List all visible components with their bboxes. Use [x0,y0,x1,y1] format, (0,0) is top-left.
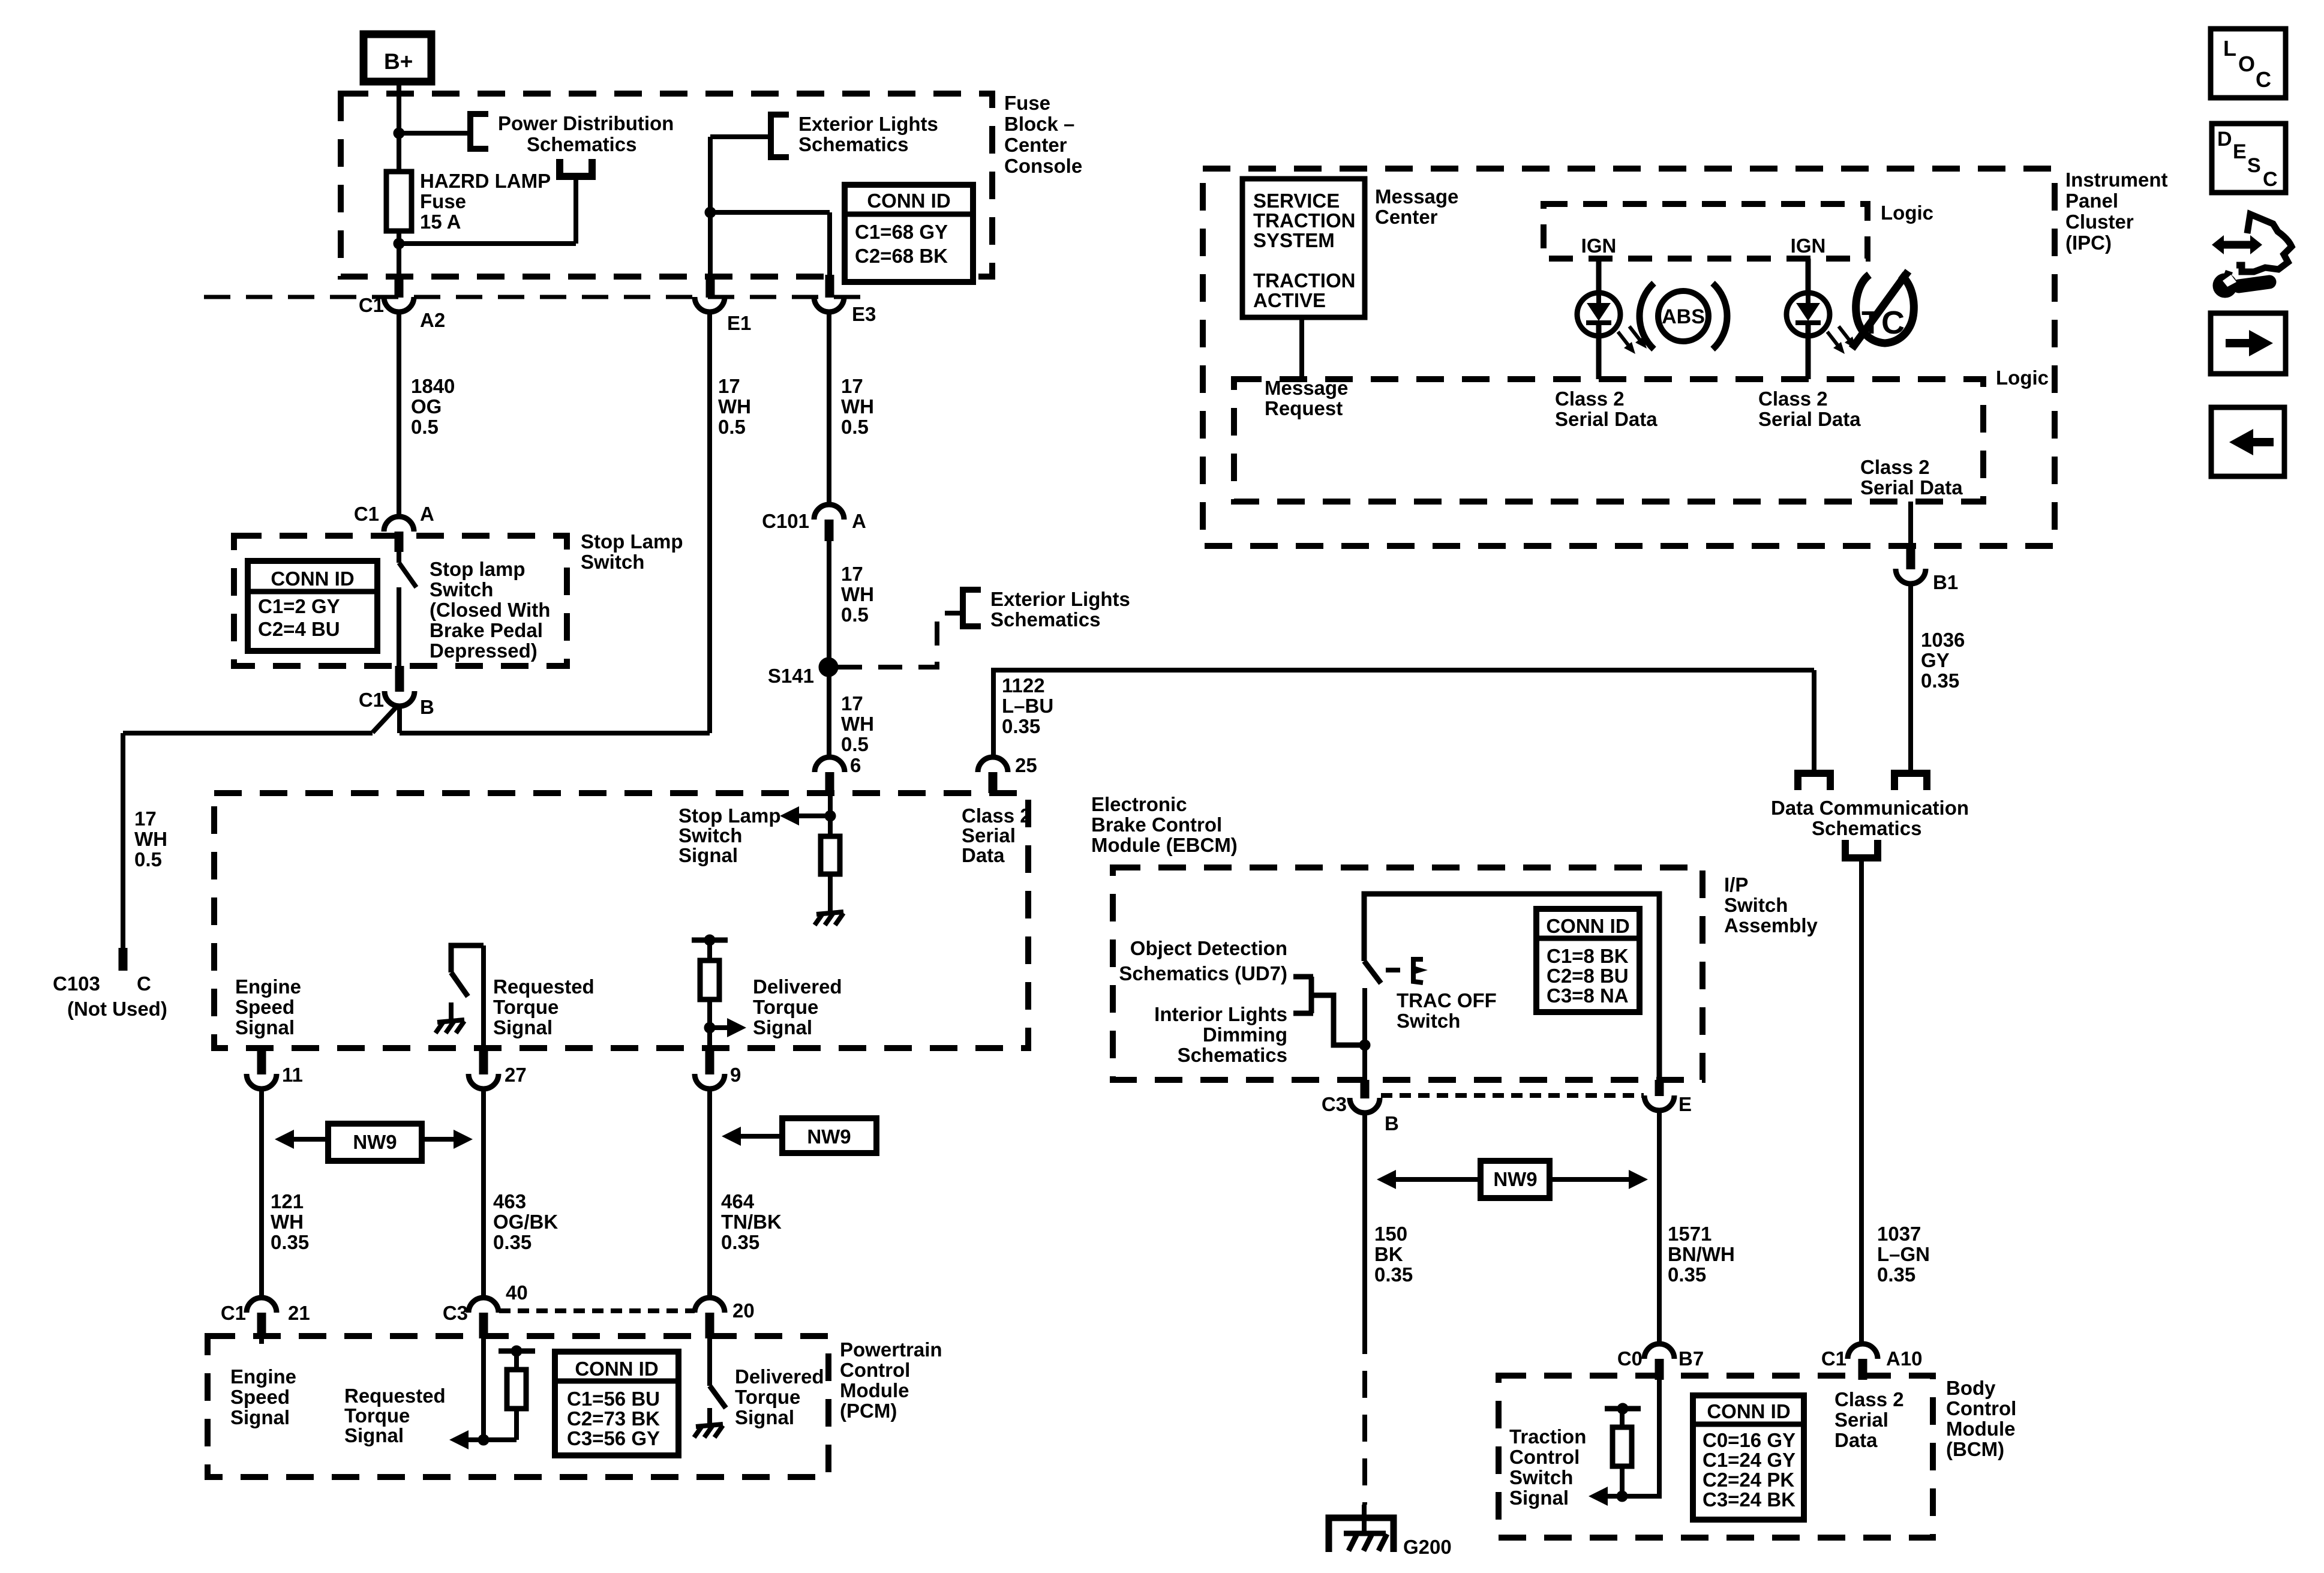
LED arrows (left) [1618,332,1631,348]
svg-text:15 A: 15 A [420,211,461,233]
wire E1 riser (17 WH 0.5) [707,312,712,733]
svg-text:WH: WH [134,828,167,850]
svg-text:O: O [2238,52,2255,76]
CONN ID table (I/P switch) [1536,909,1640,1012]
svg-text:C2=68 BK: C2=68 BK [855,245,948,267]
svg-text:Schematics: Schematics [798,133,908,155]
svg-text:Serial Data: Serial Data [1860,476,1963,499]
svg-text:Switch: Switch [430,578,493,601]
svg-text:0.35: 0.35 [1877,1263,1915,1286]
wire pin6 to stop lamp node [828,793,833,836]
svg-text:A: A [852,510,866,532]
svg-text:150: 150 [1374,1223,1407,1245]
svg-text:CONN ID: CONN ID [1707,1400,1790,1422]
off-page bracket Power Distribution [470,114,488,149]
svg-text:Switch: Switch [1724,894,1788,916]
fuse block dashed box [341,94,992,277]
svg-text:C1=2 GY: C1=2 GY [258,595,340,617]
svg-text:C2=73 BK: C2=73 BK [567,1407,660,1430]
svg-text:Signal: Signal [344,1424,404,1446]
harness NW9 (engine speed / requested torque) [275,1130,294,1149]
ground (PCM delivered torque) [707,1408,712,1424]
svg-text:C1: C1 [1821,1347,1846,1370]
harness NW9 (trac off) [1377,1170,1396,1189]
svg-text:Switch: Switch [678,824,742,846]
svg-text:Interior Lights: Interior Lights [1154,1003,1287,1025]
svg-text:17: 17 [134,807,157,830]
CONN ID table (stop lamp switch) [248,561,377,651]
svg-text:B1: B1 [1933,571,1958,593]
svg-text:0.35: 0.35 [271,1231,309,1253]
svg-text:TC: TC [1861,305,1905,341]
svg-text:1037: 1037 [1877,1223,1921,1245]
svg-text:Dimming: Dimming [1203,1023,1287,1046]
wire 1840 OG 0.5 [397,312,401,517]
svg-text:E3: E3 [852,303,876,325]
delivered torque switch (PCM) [707,1336,712,1386]
switch blade to C103 branch [373,706,398,733]
svg-text:Brake Pedal: Brake Pedal [430,619,543,641]
node E1/E3 branch junction [705,207,716,218]
wire branch to E3 [710,210,830,215]
svg-text:Control: Control [840,1359,910,1381]
svg-text:G200: G200 [1403,1536,1452,1558]
wire right LED to logic box [1806,323,1811,379]
svg-text:Message: Message [1375,185,1458,208]
wire 1122 L-BU 0.35 [993,670,1814,758]
wire message center to logic [1299,317,1304,379]
svg-text:C: C [2256,67,2271,92]
stop lamp switch dashed box [234,536,567,666]
svg-text:C1: C1 [354,503,379,525]
resistor (EBCM stop lamp pulldown) [821,836,840,874]
svg-text:C1=68 GY: C1=68 GY [855,221,948,243]
svg-text:B+: B+ [384,49,413,74]
svg-text:Torque: Torque [344,1404,410,1427]
svg-text:0.35: 0.35 [1668,1263,1706,1286]
svg-text:Torque: Torque [753,996,818,1018]
svg-text:WH: WH [841,395,874,418]
svg-text:1571: 1571 [1668,1223,1712,1245]
svg-text:A2: A2 [420,309,445,331]
LED arrows (right) [1827,332,1840,348]
splice S141 [819,658,838,677]
svg-text:CONN ID: CONN ID [575,1358,658,1380]
traction control resistor (BCM) [1605,1406,1641,1412]
power symbol B+ [364,34,431,82]
svg-text:NW9: NW9 [807,1125,851,1148]
requested torque switch (EBCM) [451,945,484,972]
wire C101 to S141 (17 WH 0.5) [827,541,831,758]
svg-text:1036: 1036 [1921,629,1965,651]
svg-text:0.5: 0.5 [411,416,439,438]
svg-text:E: E [2233,140,2247,163]
connector line row (fuse block outputs) [204,295,873,299]
svg-text:Delivered: Delivered [753,975,842,998]
svg-text:GY: GY [1921,649,1950,671]
svg-text:E: E [1679,1093,1692,1115]
svg-text:C1: C1 [359,689,384,711]
svg-text:Fuse: Fuse [1004,92,1050,114]
LED indicator (right) [1786,293,1830,336]
svg-text:0.35: 0.35 [1374,1263,1413,1286]
connector 25 [978,757,1008,772]
fuse HAZRD LAMP 15A [386,172,412,231]
svg-text:WH: WH [271,1211,304,1233]
svg-text:25: 25 [1015,754,1037,776]
svg-text:Serial: Serial [962,824,1016,846]
svg-text:TRACTION: TRACTION [1253,269,1355,292]
svg-text:Center: Center [1375,206,1438,228]
arrow Delivered Torque Signal [727,1018,746,1037]
svg-text:Class 2: Class 2 [1860,456,1930,478]
svg-text:Class 2: Class 2 [1758,388,1828,410]
svg-text:40: 40 [506,1281,528,1304]
off-page bracket data comm left [1794,770,1834,777]
svg-text:OG/BK: OG/BK [493,1211,558,1233]
svg-text:L–BU: L–BU [1002,695,1053,717]
wire 463 OG/BK 0.35 [481,1088,486,1299]
svg-text:20: 20 [732,1299,755,1322]
svg-text:121: 121 [271,1190,304,1212]
svg-text:NW9: NW9 [1493,1168,1537,1190]
svg-text:Signal: Signal [230,1406,290,1428]
svg-text:C1: C1 [221,1302,246,1324]
svg-text:17: 17 [841,375,863,397]
svg-text:Module: Module [840,1379,909,1401]
svg-text:Class 2: Class 2 [1834,1388,1904,1410]
svg-text:Switch: Switch [1509,1466,1573,1488]
off-page bracket down to fuse output [556,173,596,180]
svg-text:C1=24 GY: C1=24 GY [1703,1449,1795,1471]
svg-text:Stop lamp: Stop lamp [430,558,526,580]
svg-text:C: C [2263,168,2278,191]
svg-text:C1: C1 [359,294,384,316]
BCM dashed box [1499,1376,1933,1538]
connector C0 B7 [1644,1344,1674,1359]
wire to power distribution bracket [399,131,470,136]
svg-text:C: C [137,972,151,995]
svg-text:Speed: Speed [230,1386,290,1408]
CONN ID table (BCM) [1693,1395,1804,1520]
svg-text:Serial Data: Serial Data [1758,408,1861,430]
svg-text:D: D [2217,128,2232,151]
svg-text:Switch: Switch [1397,1010,1460,1032]
wire exterior lights feed E1 [710,134,771,139]
TRAC OFF switch rail [1364,894,1659,1080]
message center display box [1242,179,1365,317]
svg-text:C103: C103 [53,972,100,995]
svg-text:Power Distribution: Power Distribution [498,112,674,134]
svg-text:Serial: Serial [1834,1409,1888,1431]
stop lamp switch wire + blade [397,552,401,563]
ground G200 [1362,1505,1367,1533]
svg-text:Exterior Lights: Exterior Lights [798,113,938,135]
svg-text:L–GN: L–GN [1877,1243,1930,1265]
svg-text:Object Detection: Object Detection [1130,937,1287,959]
logic dashed box (IGN) [1544,204,1867,259]
svg-text:Delivered: Delivered [735,1365,824,1388]
wire IGN to right LED [1806,259,1811,293]
connector E [1655,1080,1664,1096]
svg-text:C101: C101 [762,510,809,532]
wire left LED to logic box [1596,323,1602,379]
svg-text:464: 464 [721,1190,755,1212]
connector C103 C (not used) [119,948,128,971]
svg-text:Signal: Signal [735,1406,794,1428]
off-page bracket data comm right [1891,770,1930,777]
svg-text:C3: C3 [1322,1093,1347,1115]
off-page bracket Exterior Lights (fuse block) [771,115,789,157]
svg-text:Brake Control: Brake Control [1091,813,1222,836]
svg-text:463: 463 [493,1190,526,1212]
svg-text:BK: BK [1374,1243,1403,1265]
svg-text:0.5: 0.5 [841,733,869,755]
connector 6 [815,757,845,772]
connector 20 [695,1298,725,1313]
svg-text:B: B [1385,1112,1399,1134]
svg-text:C1=8 BK: C1=8 BK [1547,945,1629,967]
wire 464 TN/BK 0.35 [707,1088,712,1299]
svg-text:Module (EBCM): Module (EBCM) [1091,834,1238,856]
svg-text:Body: Body [1946,1377,1996,1399]
svg-text:E1: E1 [727,312,751,334]
wire fuse output to bracket [574,178,578,244]
connector C1 B [395,666,404,692]
svg-text:IGN: IGN [1581,235,1617,257]
svg-text:C3=24 BK: C3=24 BK [1703,1488,1795,1511]
svg-text:Panel: Panel [2065,190,2118,212]
I/P switch assembly dashed box [1113,867,1703,1080]
svg-text:OG: OG [411,395,442,418]
ABS warning symbol [1658,291,1709,341]
connector C1 21 [247,1298,277,1313]
svg-text:Schematics: Schematics [1812,817,1921,839]
svg-text:Requested: Requested [344,1385,446,1407]
connector 27 [479,1048,488,1074]
connector C1 A2 [395,275,404,298]
svg-text:Assembly: Assembly [1724,914,1818,936]
wire 1037 L-GN 0.35 [1859,859,1864,1344]
svg-text:C0: C0 [1617,1347,1643,1370]
svg-text:Depressed): Depressed) [430,640,538,662]
connector B1 [1908,502,1913,546]
svg-text:Class 2: Class 2 [1555,388,1625,410]
svg-text:WH: WH [841,713,874,735]
wire B7 into BCM [1622,1380,1659,1496]
svg-text:WH: WH [718,395,751,418]
svg-text:Powertrain: Powertrain [840,1338,942,1361]
svg-text:Logic: Logic [1996,367,2049,389]
connector C3 B [1361,1080,1370,1098]
svg-text:Data: Data [962,844,1005,866]
EBCM dashed box [214,793,1028,1048]
TC indicator symbol [1856,275,1914,343]
svg-text:1840: 1840 [411,375,455,397]
svg-text:C3: C3 [443,1302,468,1324]
svg-text:6: 6 [850,754,861,776]
svg-text:Signal: Signal [753,1016,812,1038]
requested torque resistor (PCM) [499,1349,535,1354]
svg-text:S141: S141 [768,665,814,687]
svg-text:Traction: Traction [1509,1425,1586,1448]
svg-text:Fuse: Fuse [420,190,466,212]
svg-text:0.35: 0.35 [493,1231,532,1253]
svg-text:Request: Request [1265,397,1343,419]
wire C1 B to junction [397,706,402,733]
svg-text:Torque: Torque [493,996,559,1018]
svg-text:HAZRD LAMP: HAZRD LAMP [420,170,551,192]
wire 1571 BN/WH 0.35 [1657,1110,1662,1346]
switch actuator link [1386,968,1409,972]
svg-text:Instrument: Instrument [2065,169,2168,191]
wire data comm (left drop) [1812,670,1816,770]
svg-text:CONN ID: CONN ID [867,190,950,212]
svg-text:Center: Center [1004,134,1067,156]
svg-text:21: 21 [288,1302,310,1324]
svg-text:Signal: Signal [493,1016,553,1038]
svg-text:(IPC): (IPC) [2065,232,2112,254]
svg-text:0.35: 0.35 [1002,715,1040,737]
dashed wire S141 to exterior lights [838,613,961,667]
svg-text:Requested: Requested [493,975,594,998]
LED indicator (left) [1577,293,1620,336]
svg-text:0.5: 0.5 [841,416,869,438]
svg-text:L: L [2223,36,2236,61]
svg-text:Data: Data [1834,1429,1878,1451]
connector C1 A (stop lamp switch) [384,517,414,532]
svg-text:Control: Control [1946,1397,2016,1419]
svg-text:0.5: 0.5 [134,848,162,870]
node trac off / dimming join [1359,1040,1370,1050]
svg-text:TRACTION: TRACTION [1253,209,1355,232]
svg-text:0.5: 0.5 [718,416,746,438]
svg-text:C3=8 NA: C3=8 NA [1547,984,1629,1007]
connector E3 [825,275,834,298]
svg-text:Switch: Switch [581,551,644,573]
svg-text:0.35: 0.35 [721,1231,759,1253]
connector line row (PCM) [499,1308,695,1313]
icon dog head with arrow and wrench [2236,214,2292,272]
node fuse output junction [394,238,404,249]
wire 1036 GY 0.35 [1908,584,1913,770]
svg-text:C2=24 PK: C2=24 PK [1703,1469,1794,1491]
wire to C103 (not used) [123,731,373,736]
svg-text:IGN: IGN [1791,235,1826,257]
wire TRAC OFF to C3 B [1362,988,1367,1080]
svg-text:B7: B7 [1679,1347,1704,1370]
connector 11 [257,1048,266,1074]
svg-text:CONN ID: CONN ID [1546,915,1629,937]
icon arrow left box [2211,407,2284,476]
svg-text:0.5: 0.5 [841,604,869,626]
svg-text:1122: 1122 [1002,674,1045,697]
svg-text:CONN ID: CONN ID [271,568,354,590]
requested torque node + arrow (PCM) [481,1336,486,1440]
wire B+ feed [397,82,401,172]
svg-text:WH: WH [841,583,874,605]
svg-text:Schematics: Schematics [990,608,1100,631]
svg-text:Data Communication: Data Communication [1771,797,1969,819]
svg-text:C3=56 GY: C3=56 GY [567,1427,660,1449]
svg-text:C0=16 GY: C0=16 GY [1703,1429,1795,1451]
ground (EBCM stop lamp) [816,912,843,914]
svg-text:C2=4 BU: C2=4 BU [258,618,340,640]
svg-text:C2=8 BU: C2=8 BU [1547,965,1629,987]
svg-text:A10: A10 [1886,1347,1923,1370]
svg-text:(Closed With: (Closed With [430,599,550,621]
svg-text:NW9: NW9 [353,1131,397,1153]
icon LOC box [2211,29,2286,98]
svg-text:Console: Console [1004,155,1082,177]
svg-text:Signal: Signal [678,844,738,866]
connector C101 A [814,505,844,520]
connector E1 [706,275,715,298]
object detection / interior lights bracket [1293,974,1313,980]
svg-text:Class 2: Class 2 [962,804,1031,827]
svg-text:Stop Lamp: Stop Lamp [581,530,683,553]
off-page bracket Exterior Lights (S141) [963,590,981,626]
svg-text:TRAC OFF: TRAC OFF [1397,989,1497,1011]
svg-text:27: 27 [505,1064,527,1086]
svg-text:Signal: Signal [235,1016,295,1038]
svg-text:Message: Message [1265,377,1348,399]
svg-text:Schematics (UD7): Schematics (UD7) [1119,962,1287,984]
svg-text:Module: Module [1946,1418,2015,1440]
IPC dashed box [1203,169,2055,546]
off-page bracket data comm lower [1842,854,1881,861]
CONN ID table (PCM) [555,1352,678,1455]
svg-text:Schematics: Schematics [527,133,636,155]
svg-text:Cluster: Cluster [2065,211,2134,233]
svg-text:I/P: I/P [1724,873,1748,896]
svg-text:Engine: Engine [230,1365,296,1388]
wire IGN to left LED [1596,259,1602,293]
delivered torque resistor (EBCM) [692,938,728,943]
svg-text:17: 17 [841,563,863,585]
svg-text:SERVICE: SERVICE [1253,190,1340,212]
wire fuse to connector C1 A2 [397,231,401,275]
svg-text:11: 11 [282,1064,303,1086]
connector C3 40 [469,1298,499,1313]
svg-text:0.35: 0.35 [1921,670,1959,692]
node delivered torque [704,1022,715,1033]
svg-text:(BCM): (BCM) [1946,1438,2004,1460]
svg-text:(Not Used): (Not Used) [67,998,167,1020]
svg-text:9: 9 [730,1064,741,1086]
PCM dashed box [208,1336,828,1477]
svg-text:TN/BK: TN/BK [721,1211,782,1233]
svg-text:ABS: ABS [1662,305,1705,328]
connector line row (I/P outputs) [1381,1093,1644,1098]
wire 121 WH 0.35 [259,1088,264,1299]
node stop lamp switch signal [825,810,836,821]
svg-text:Control: Control [1509,1446,1580,1468]
connector 9 [705,1048,714,1074]
arrow Stop Lamp Switch Signal [780,806,799,825]
wire 150 BK 0.35 [1362,1112,1367,1327]
svg-text:A: A [420,503,434,525]
svg-text:Schematics: Schematics [1178,1044,1287,1066]
icon DESC box [2212,124,2286,193]
connector C1 A10 [1848,1344,1878,1359]
svg-text:(PCM): (PCM) [840,1400,897,1422]
svg-text:Signal: Signal [1509,1487,1569,1509]
svg-text:Torque: Torque [735,1386,800,1408]
node fuse input junction [394,128,404,139]
icon arrow right box [2211,313,2286,374]
svg-text:SYSTEM: SYSTEM [1253,229,1335,251]
